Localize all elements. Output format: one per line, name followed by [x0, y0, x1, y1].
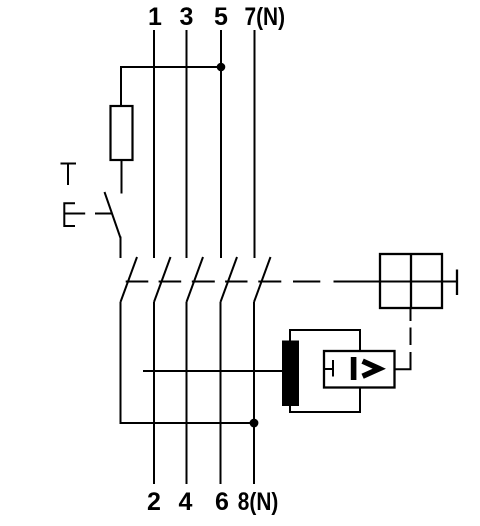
actuator end bar — [456, 270, 458, 296]
resistor R test — [111, 106, 133, 160]
wire: pole 6 lower — [220, 302, 222, 484]
wire: resistor to test contact — [121, 160, 123, 194]
svg-text:6: 6 — [215, 488, 229, 516]
svg-text:2: 2 — [147, 488, 161, 516]
detector I> box — [324, 351, 395, 388]
detector input bar — [332, 360, 334, 377]
symbol I — [351, 357, 357, 380]
trip relay box — [380, 254, 442, 308]
symbol greater-than — [363, 361, 380, 376]
test button T — [61, 164, 77, 186]
wire: pole 7(N) upper — [254, 30, 256, 258]
wire: secondary winding loop — [290, 330, 360, 412]
svg-text:3: 3 — [180, 3, 194, 31]
wire: pole 5 upper — [220, 30, 222, 258]
wire: pole 1 upper — [153, 30, 155, 258]
detector input stub — [324, 368, 333, 370]
trip relay divider — [410, 254, 412, 308]
switch: test pushbutton blade — [105, 192, 121, 238]
main contact: test line blade — [121, 257, 138, 302]
wire: trip link dashed vertical — [395, 308, 411, 369]
node: junction on line 5 — [217, 63, 226, 72]
wire: pole 2 lower — [153, 302, 155, 484]
svg-text:4: 4 — [179, 488, 193, 516]
wire: pole 3 upper — [186, 30, 188, 258]
main contact: pole 5 blade — [221, 257, 238, 302]
test button actuator — [64, 203, 111, 226]
wire: pole 4 lower — [186, 302, 188, 484]
svg-text:8(N): 8(N) — [238, 488, 278, 516]
svg-text:5: 5 — [214, 3, 228, 31]
svg-text:7(N): 7(N) — [245, 3, 286, 31]
wire: test tap from line 5 — [121, 67, 221, 106]
main contact: pole 7(N) blade — [254, 257, 271, 302]
wire: toroid primary line — [143, 370, 283, 372]
main contact: pole 3 blade — [187, 257, 204, 302]
node: junction on line 8(N) — [250, 419, 259, 428]
wire: test line lower — [121, 302, 255, 423]
wire: test line to main contact — [120, 237, 122, 259]
current transformer core — [282, 341, 299, 407]
svg-text:1: 1 — [148, 3, 162, 31]
main contact: pole 1 blade — [154, 257, 171, 302]
wire: pole 8(N) lower — [253, 302, 255, 484]
mechanical linkage dashed — [126, 281, 457, 283]
